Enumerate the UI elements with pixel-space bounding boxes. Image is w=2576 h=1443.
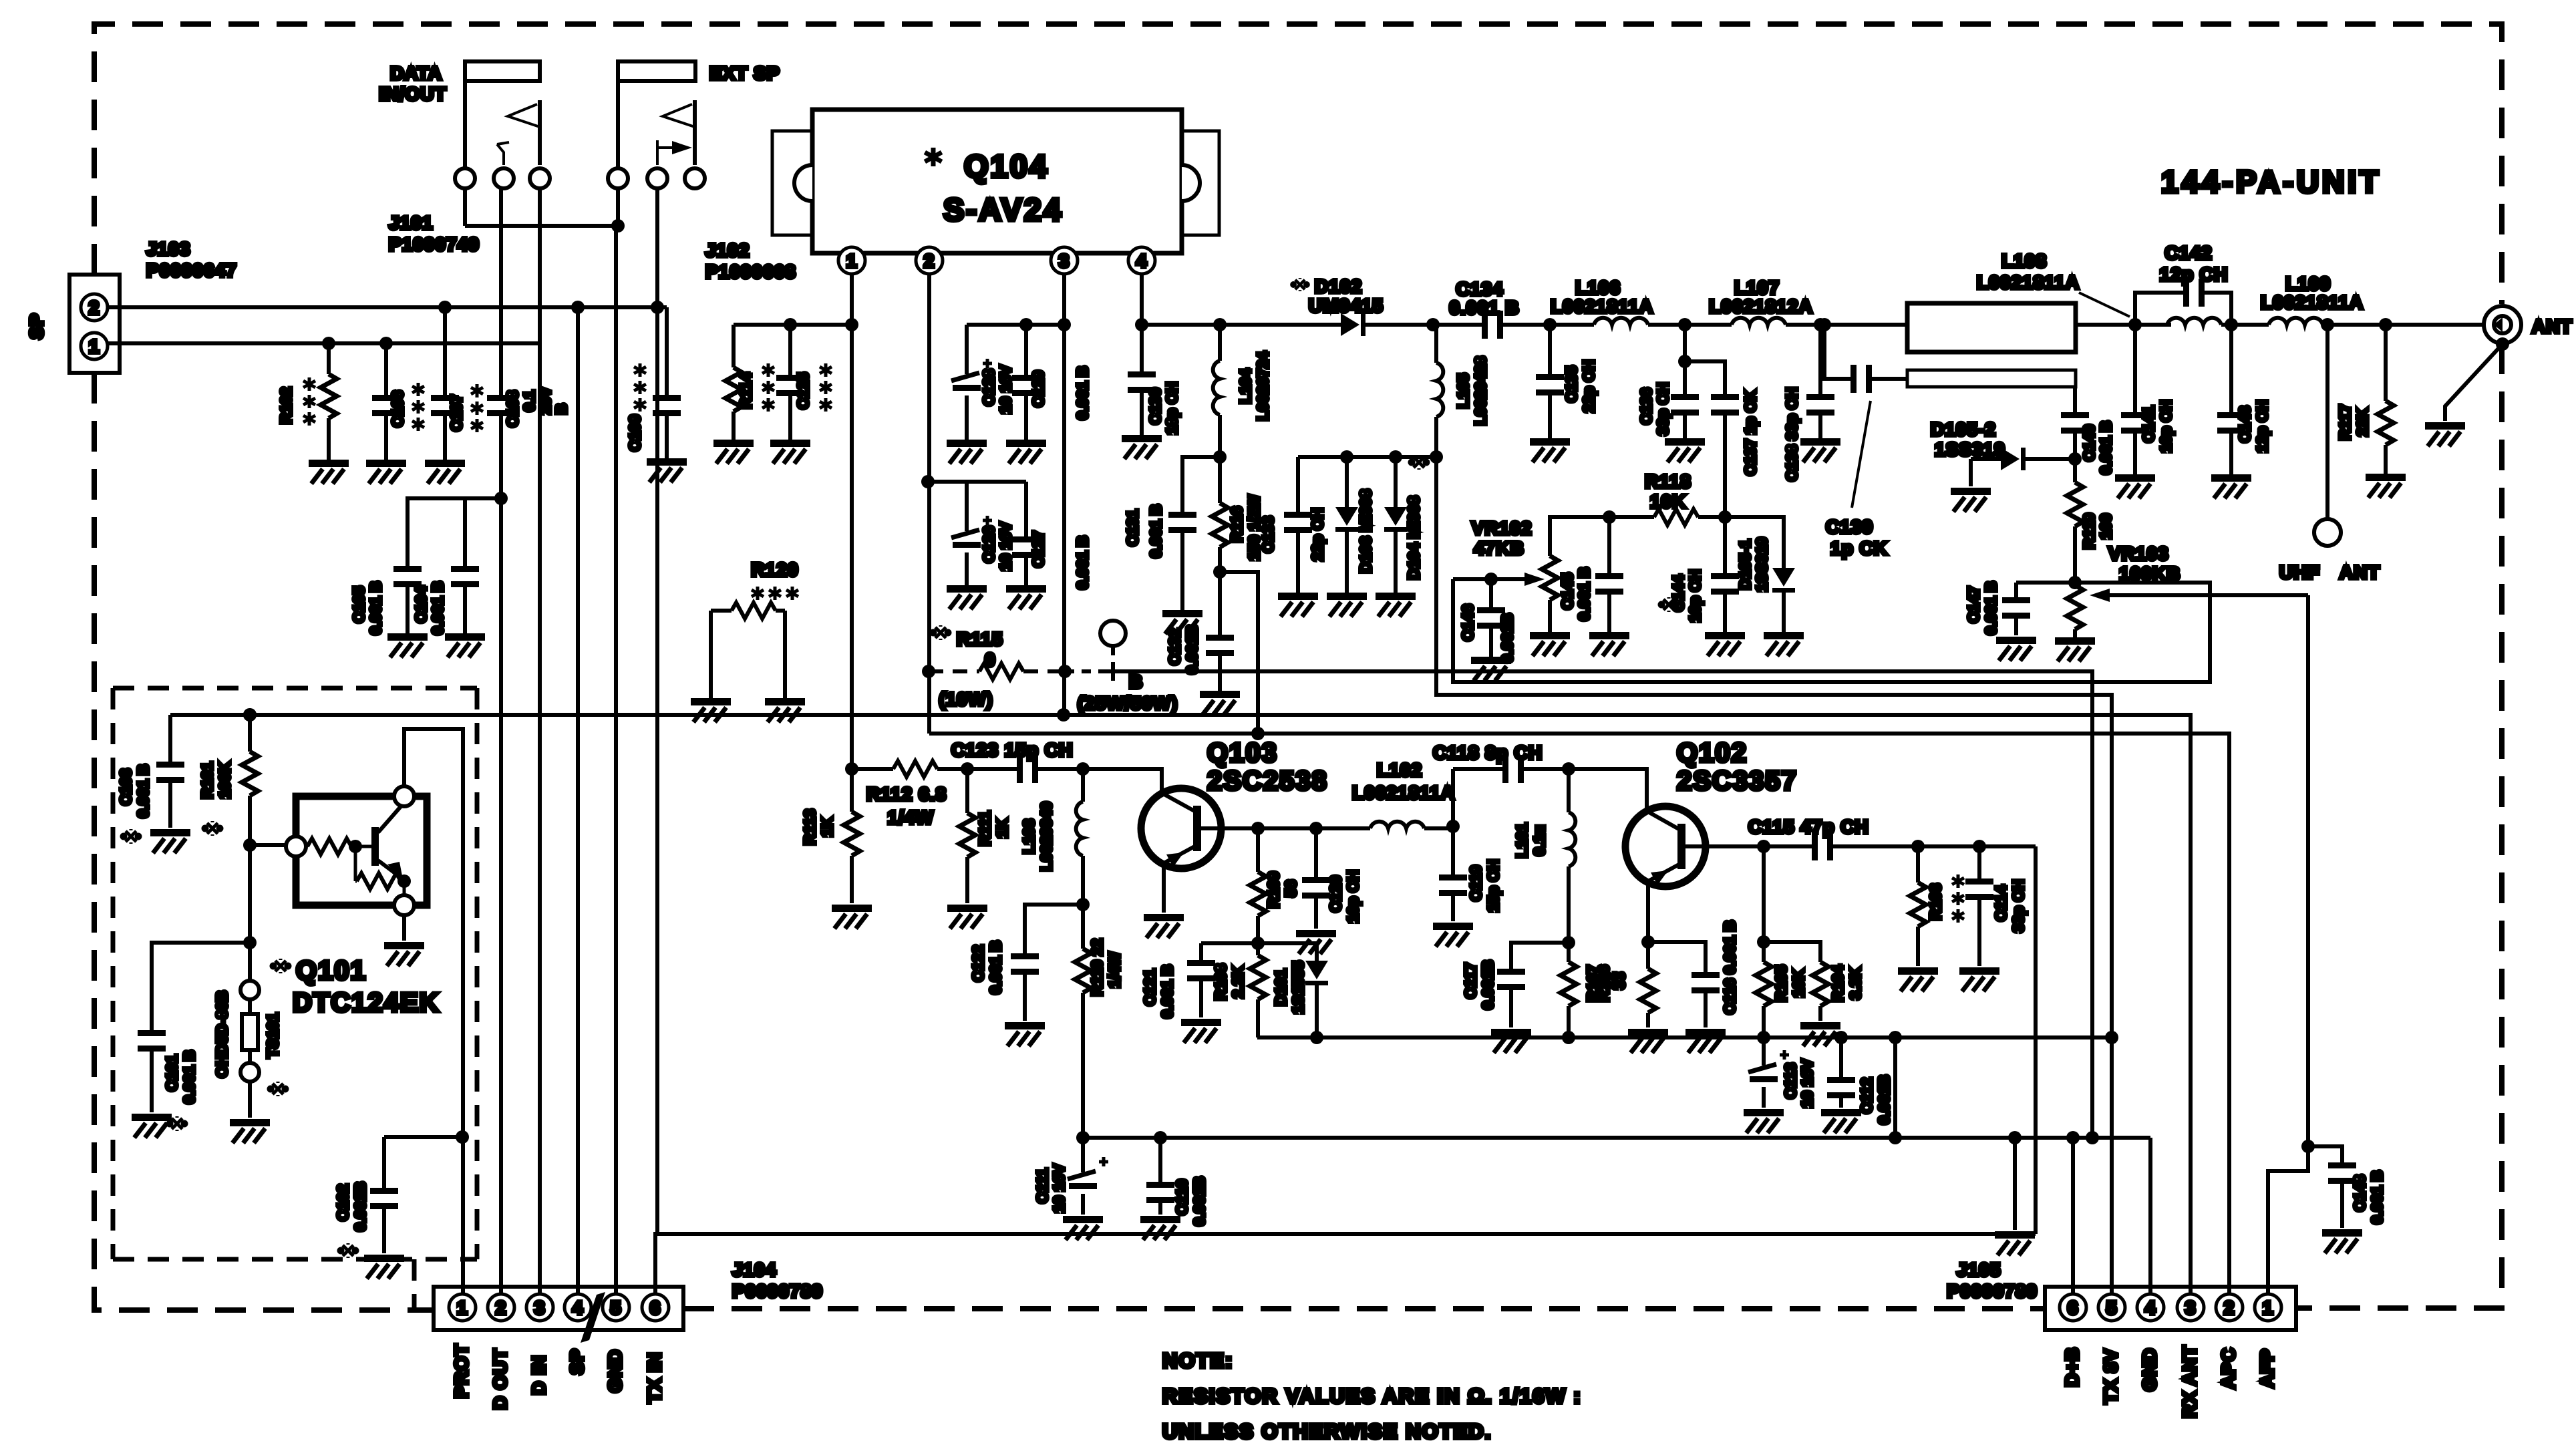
capacitor C115 xyxy=(1764,832,2036,860)
svg-text:GND: GND xyxy=(605,1349,625,1392)
ground xyxy=(1530,438,1570,462)
inductor L108 coil xyxy=(2167,318,2269,325)
svg-text:33: 33 xyxy=(1611,972,1628,989)
node junction xyxy=(1309,822,1323,835)
wire Q103 output row xyxy=(1258,826,1370,830)
capacitor C142 xyxy=(2135,279,2231,325)
wire R108/D101 top node row xyxy=(1201,941,1317,945)
ground xyxy=(765,698,805,722)
label C126 10 16V xyxy=(980,522,1014,571)
transistor Q103 xyxy=(1141,788,1258,913)
diode D101 1S1555 xyxy=(1305,943,1328,1037)
ground xyxy=(1278,593,1318,617)
svg-text:1: 1 xyxy=(457,1297,468,1318)
svg-text:UHF: UHF xyxy=(2279,562,2320,583)
label 0.1 25V B xyxy=(520,387,570,415)
label R110 22 1/4W xyxy=(1088,939,1123,996)
svg-text:DTC124EK: DTC124EK xyxy=(293,988,440,1017)
label TS101 xyxy=(264,1013,287,1096)
svg-text:0.001 B: 0.001 B xyxy=(1158,965,1176,1019)
svg-text:6: 6 xyxy=(2068,1297,2079,1318)
svg-text:0.001 B: 0.001 B xyxy=(2368,1170,2386,1225)
label Q103 2SC2538 xyxy=(1207,738,1328,796)
label C102 0.001B xyxy=(334,1182,369,1258)
svg-text:SP: SP xyxy=(567,1348,587,1374)
ground xyxy=(1327,593,1367,617)
node junction xyxy=(1213,318,1227,331)
wire ANT ground branch xyxy=(2445,344,2503,421)
svg-text:P0090789: P0090789 xyxy=(732,1281,823,1301)
capacitor C144 xyxy=(1711,517,1739,632)
capacitor C102 xyxy=(370,1137,462,1253)
label C111 10 16V xyxy=(1033,1164,1068,1213)
capacitor C111 electrolytic xyxy=(1068,1138,1108,1215)
svg-text:2: 2 xyxy=(924,251,935,271)
svg-text:L106: L106 xyxy=(1575,277,1621,298)
svg-text:0.001 B: 0.001 B xyxy=(1074,536,1091,590)
node junction xyxy=(2105,1031,2118,1044)
svg-text:10 16V: 10 16V xyxy=(997,365,1014,414)
node junction xyxy=(1310,1031,1323,1044)
inductor L107 xyxy=(1732,318,1907,325)
svg-text:22K: 22K xyxy=(2354,408,2371,437)
label C146 0.001B xyxy=(1459,605,1516,663)
node junction xyxy=(243,708,257,721)
capacitor C143 xyxy=(2217,325,2245,474)
label J104 P0090789 xyxy=(732,1259,823,1301)
node junction xyxy=(243,838,257,852)
label C131 0.001 B xyxy=(1124,504,1164,558)
wire C118 row xyxy=(1453,769,1647,811)
node junction xyxy=(961,762,974,776)
label C109 *** xyxy=(626,363,646,451)
ground xyxy=(2425,422,2465,446)
ground xyxy=(1821,1109,1861,1133)
node junction xyxy=(1076,762,1090,776)
node junction xyxy=(2321,318,2334,331)
capacitor C108 xyxy=(487,395,515,416)
svg-text:1/4W: 1/4W xyxy=(1106,952,1123,988)
svg-text:56: 56 xyxy=(1282,880,1299,897)
svg-text:100KB: 100KB xyxy=(2119,563,2181,584)
ground xyxy=(1764,632,1804,656)
label R106 33 xyxy=(1595,965,1628,1002)
wire xyxy=(1433,323,1482,327)
ground xyxy=(691,698,731,722)
ground xyxy=(384,915,424,966)
label R112 6.8 1/4W xyxy=(866,784,947,828)
ground xyxy=(150,829,190,853)
label R113 1K xyxy=(801,809,836,845)
svg-text:2: 2 xyxy=(496,1297,507,1318)
label C113 10 16V xyxy=(1782,1059,1816,1108)
label Q101 DTC124EK xyxy=(272,956,440,1017)
node junction xyxy=(2068,452,2082,466)
wire +B to D+B pin xyxy=(1113,671,2092,1299)
label C105 0.001 B xyxy=(350,581,384,635)
svg-text:P1090668: P1090668 xyxy=(705,261,796,282)
label C110 0.001B xyxy=(1173,1176,1208,1226)
ground xyxy=(2211,474,2251,498)
wire D IN column xyxy=(538,188,542,1299)
label L106 L0021811A xyxy=(1551,277,1653,317)
label R101 100K xyxy=(198,762,233,836)
ground xyxy=(2115,474,2155,498)
svg-text:C121: C121 xyxy=(1141,969,1158,1005)
svg-text:0.001B: 0.001B xyxy=(1183,625,1200,674)
svg-text:UM9415: UM9415 xyxy=(1309,295,1384,316)
svg-text:C127: C127 xyxy=(1029,531,1047,568)
ground xyxy=(1995,1231,2035,1255)
resistor R108 2.2K xyxy=(1250,943,1266,1037)
svg-text:1: 1 xyxy=(846,251,858,271)
node junction xyxy=(1251,822,1265,835)
capacitor C105 xyxy=(393,566,422,587)
capacitor C127 xyxy=(1012,482,1040,585)
node junction xyxy=(571,301,585,314)
svg-text:L0020428: L0020428 xyxy=(1472,356,1489,426)
ground xyxy=(2322,1229,2362,1253)
svg-text:2SC3357: 2SC3357 xyxy=(1677,766,1798,796)
capacitor C122 xyxy=(1011,905,1083,1021)
svg-text:D+B: D+B xyxy=(2062,1347,2082,1387)
svg-text:RESISTOR VALUES ARE IN Ω. 1/16: RESISTOR VALUES ARE IN Ω. 1/16W : xyxy=(1162,1384,1582,1408)
module Q104 S-AV24 xyxy=(772,110,1219,253)
node junction xyxy=(1426,318,1440,331)
svg-text:J101: J101 xyxy=(389,212,433,233)
node junction xyxy=(1213,565,1227,579)
label R117 22K xyxy=(2336,404,2371,440)
svg-text:2.2K: 2.2K xyxy=(1229,965,1247,998)
node junction xyxy=(1641,935,1655,949)
svg-text:3: 3 xyxy=(1059,251,1070,271)
resistor R120 xyxy=(711,603,785,698)
node junction xyxy=(379,337,393,350)
label L104 L0020724 xyxy=(1237,351,1271,421)
svg-text:R116: R116 xyxy=(1228,506,1245,542)
ground xyxy=(1705,632,1745,656)
svg-text:R119: R119 xyxy=(2080,513,2098,549)
svg-text:22p CH: 22p CH xyxy=(1580,359,1597,412)
diode D103 xyxy=(1335,457,1358,593)
node junction xyxy=(1154,1131,1167,1144)
label C104 0.001 B xyxy=(412,581,446,635)
ground xyxy=(1006,440,1046,464)
svg-text:1: 1 xyxy=(2263,1297,2274,1318)
label D101 1S1555 xyxy=(1272,961,1307,1014)
svg-text:C117: C117 xyxy=(1462,963,1479,999)
connector ANT xyxy=(2484,306,2521,343)
inductor L104 xyxy=(1213,325,1220,457)
node junction xyxy=(651,301,664,314)
svg-text:L0021811A: L0021811A xyxy=(1551,296,1653,317)
capacitor C119 xyxy=(1439,826,1467,921)
label C117 0.001B xyxy=(1462,960,1496,1009)
wire C136/C137 stub xyxy=(1685,325,1725,394)
node junction xyxy=(1213,450,1227,464)
svg-text:47KB: 47KB xyxy=(1474,538,1524,558)
svg-text:C145: C145 xyxy=(1559,573,1576,609)
svg-text:0.001 B: 0.001 B xyxy=(367,581,384,635)
svg-text:1K: 1K xyxy=(993,818,1011,838)
resistor R119 xyxy=(2067,459,2083,583)
ground xyxy=(1181,1019,1221,1043)
wire driver input row xyxy=(852,325,1162,792)
ground xyxy=(387,633,428,657)
svg-text:R112 6.8: R112 6.8 xyxy=(866,784,947,804)
potentiometer VR103 xyxy=(2067,583,2308,637)
svg-text:L0021812A: L0021812A xyxy=(1709,296,1812,317)
ground xyxy=(1589,632,1629,656)
capacitor C103 xyxy=(156,715,184,828)
svg-text:Q103: Q103 xyxy=(1207,738,1278,768)
label DATA IN/OUT xyxy=(379,63,447,104)
svg-text:R106: R106 xyxy=(1595,965,1612,1002)
node junction xyxy=(1484,573,1498,586)
svg-text:R105: R105 xyxy=(1772,965,1790,1001)
svg-text:R115: R115 xyxy=(957,629,1003,649)
resistor R106 33 xyxy=(1640,942,1656,1027)
resistor R113 xyxy=(844,769,860,903)
svg-text:R120: R120 xyxy=(752,559,799,580)
thermal switch TS101 xyxy=(240,981,259,1118)
wire GND column xyxy=(616,188,618,1299)
svg-text:5: 5 xyxy=(2106,1297,2118,1318)
svg-text:P0090789: P0090789 xyxy=(1947,1281,2038,1301)
svg-text:C102: C102 xyxy=(334,1184,351,1221)
svg-text:0.001B: 0.001B xyxy=(1479,960,1496,1009)
svg-text:C122: C122 xyxy=(969,945,987,982)
svg-text:C113: C113 xyxy=(1782,1063,1799,1099)
node junction xyxy=(1603,510,1616,524)
note text xyxy=(1162,1349,1582,1443)
svg-text:ANT: ANT xyxy=(2532,316,2573,337)
node junction xyxy=(1973,840,1986,853)
wire C126/C127 stub xyxy=(928,480,1026,484)
ground xyxy=(1996,637,2036,661)
node junction xyxy=(1889,1031,1902,1044)
svg-text:C108: C108 xyxy=(504,390,521,427)
svg-text:1p CK: 1p CK xyxy=(1830,538,1888,558)
label C119 15p CH xyxy=(1467,859,1502,912)
ground xyxy=(1200,691,1240,715)
svg-text:B: B xyxy=(1129,671,1143,692)
svg-text:OHD5D-80B: OHD5D-80B xyxy=(213,991,230,1078)
wire RX ANT rail xyxy=(170,715,2191,1299)
svg-text:C111: C111 xyxy=(1033,1168,1051,1204)
node junction xyxy=(2379,318,2392,331)
inductor L106 xyxy=(1594,318,1732,325)
svg-text:L103: L103 xyxy=(1020,819,1037,854)
svg-text:C128: C128 xyxy=(980,369,997,406)
label R118 10K xyxy=(1645,471,1691,512)
svg-text:RX ANT: RX ANT xyxy=(2179,1345,2200,1418)
ground xyxy=(2366,474,2406,498)
label C112 0.001B xyxy=(1858,1075,1893,1124)
svg-text:C135: C135 xyxy=(1563,365,1580,402)
capacitor C145 xyxy=(1595,517,1623,632)
node junction xyxy=(1251,727,1265,740)
svg-text:C148: C148 xyxy=(2351,1174,2368,1211)
capacitor C125 xyxy=(776,325,804,440)
svg-text:C126: C126 xyxy=(980,526,997,563)
capacitor C112 xyxy=(1827,1037,1855,1108)
label C144 10p CH xyxy=(1660,569,1704,622)
svg-text:R114: R114 xyxy=(737,373,754,409)
label L102 L0021811A xyxy=(1352,760,1455,803)
ground xyxy=(309,460,349,484)
capacitor C139 xyxy=(1824,325,1907,393)
label C145 0.001 B xyxy=(1559,567,1593,621)
svg-text:10p CH: 10p CH xyxy=(1344,870,1361,923)
inductor L101 xyxy=(1569,769,1575,943)
svg-text:0.001B: 0.001B xyxy=(1875,1075,1893,1124)
label C148 0.001 B xyxy=(2351,1170,2386,1225)
svg-text:Q102: Q102 xyxy=(1677,738,1748,768)
capacitor C131 xyxy=(1168,457,1220,610)
resistor R112 6.8 xyxy=(893,761,937,777)
node junction xyxy=(1718,510,1732,524)
node junction xyxy=(2066,1131,2080,1144)
svg-text:L109: L109 xyxy=(2285,273,2331,294)
node junction xyxy=(1430,450,1443,464)
wire ground stub xyxy=(2013,1138,2017,1230)
svg-text:C110: C110 xyxy=(1173,1179,1190,1215)
capacitor C120 xyxy=(1302,828,1330,929)
svg-text:J104: J104 xyxy=(732,1259,776,1280)
label C133 22p CH xyxy=(1259,508,1326,560)
capacitor C101 xyxy=(138,943,250,1112)
ground xyxy=(1296,930,1336,954)
capacitor C117 xyxy=(1497,943,1569,1027)
svg-text:0: 0 xyxy=(985,649,996,670)
inductor L103 xyxy=(1076,769,1083,905)
node junction xyxy=(1757,1031,1770,1044)
node junction xyxy=(845,762,858,776)
transistor Q101 DTC124EK package xyxy=(286,786,427,915)
ground xyxy=(1006,585,1046,609)
svg-text:C119: C119 xyxy=(1467,865,1484,901)
svg-text:B: B xyxy=(552,404,570,415)
ground xyxy=(1800,1022,1840,1046)
svg-text:L101: L101 xyxy=(1513,823,1531,858)
svg-text:L104: L104 xyxy=(1237,369,1254,404)
label C122 0.001 B xyxy=(969,941,1004,995)
svg-text:C104: C104 xyxy=(412,586,430,623)
svg-text:L102: L102 xyxy=(1377,760,1422,780)
capacitor C123 xyxy=(1017,755,1038,783)
svg-text:C105: C105 xyxy=(350,586,367,623)
svg-text:3: 3 xyxy=(534,1297,546,1318)
node junction xyxy=(1818,318,1831,331)
capacitor C132 xyxy=(1206,572,1234,691)
ground xyxy=(1140,1216,1180,1240)
svg-text:P1090749: P1090749 xyxy=(389,234,480,255)
svg-text:C129: C129 xyxy=(1029,371,1047,408)
capacitor C141 xyxy=(2121,325,2149,474)
connector UHF ANT xyxy=(2314,519,2341,546)
svg-text:2: 2 xyxy=(89,297,100,318)
svg-text:L0021811A: L0021811A xyxy=(1352,782,1455,803)
svg-text:0.001 B: 0.001 B xyxy=(180,1050,198,1104)
ground xyxy=(1471,657,1511,681)
node junction xyxy=(1678,355,1692,368)
potentiometer VR102 xyxy=(1453,517,1609,632)
svg-text:C138 33p CH: C138 33p CH xyxy=(1783,387,1800,482)
svg-text:TS101: TS101 xyxy=(264,1013,281,1058)
capacitor C138 xyxy=(1806,325,1834,438)
svg-text:C146: C146 xyxy=(1459,605,1476,641)
label R114 *** xyxy=(737,363,774,412)
node junction xyxy=(1562,936,1575,949)
diode D105-2 xyxy=(1971,448,2075,486)
node junction xyxy=(845,318,858,331)
label C103 0.001 B xyxy=(117,764,152,844)
label R109 56 xyxy=(1265,872,1299,909)
resistor R117 xyxy=(2378,325,2394,474)
svg-text:15p CH: 15p CH xyxy=(1484,859,1502,912)
svg-text:12p CH: 12p CH xyxy=(2160,264,2228,285)
wire SP column xyxy=(576,307,580,1299)
node junction xyxy=(1251,937,1265,950)
resistor R103 *** xyxy=(1910,846,1926,966)
ground xyxy=(1665,438,1705,462)
wire supply rail xyxy=(1083,1136,2150,1140)
capacitor C126 electrolytic xyxy=(951,482,992,585)
svg-text:(25W/50W): (25W/50W) xyxy=(1078,693,1178,713)
svg-text:C131: C131 xyxy=(1124,509,1141,546)
svg-text:0.001B: 0.001B xyxy=(351,1182,369,1231)
capacitor C110 xyxy=(1146,1138,1174,1215)
resistor R118 10K xyxy=(1609,509,1725,525)
label D105-1 1SS319 xyxy=(1736,537,1770,592)
inductor L102 xyxy=(1370,769,1453,828)
svg-text:0.001 B: 0.001 B xyxy=(429,581,446,635)
pin 2 xyxy=(916,247,943,274)
svg-text:D OUT: D OUT xyxy=(490,1348,510,1410)
node junction xyxy=(784,318,797,331)
svg-text:C114: C114 xyxy=(1992,885,2009,921)
pin 1 xyxy=(838,247,865,274)
wire pin2 column xyxy=(927,274,931,734)
node junction xyxy=(1757,840,1770,853)
node junction xyxy=(243,708,257,721)
node junction xyxy=(611,219,625,232)
svg-text:10K: 10K xyxy=(1790,969,1807,998)
svg-text:D IN: D IN xyxy=(528,1355,549,1395)
svg-text:L0021811A: L0021811A xyxy=(1977,272,2080,293)
svg-text:D103 MI308: D103 MI308 xyxy=(1357,489,1374,573)
wire TX IN riser xyxy=(2034,846,2038,1234)
svg-text:10 16V: 10 16V xyxy=(1050,1164,1068,1213)
connector J104 xyxy=(434,1287,683,1343)
wire D103/D104 node xyxy=(1298,455,1436,459)
wire R116 to APC rail xyxy=(1220,572,1258,734)
svg-text:4: 4 xyxy=(2145,1297,2156,1318)
svg-text:2SC2538: 2SC2538 xyxy=(1207,766,1328,796)
svg-text:C133: C133 xyxy=(1259,516,1277,553)
node junction xyxy=(456,1130,469,1144)
wire AFP route xyxy=(2268,595,2308,1299)
capacitor C148 xyxy=(2308,1146,2356,1228)
label R107 22 xyxy=(1584,965,1619,1002)
wire pin4 lead xyxy=(1140,274,1144,325)
wire C128/C129 node xyxy=(967,323,1064,327)
ground xyxy=(132,1114,172,1138)
svg-text:C130: C130 xyxy=(1146,388,1164,425)
node junction xyxy=(2068,576,2082,589)
wire SP pin1 line xyxy=(108,341,540,345)
